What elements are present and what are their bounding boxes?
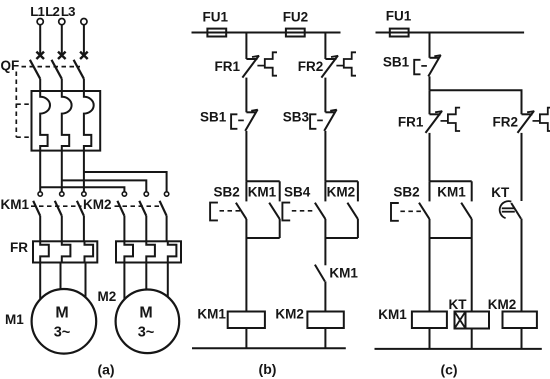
svg-text:FU2: FU2 xyxy=(283,10,309,25)
contactor coil KM2 xyxy=(307,312,343,329)
junction bar to FR2 branch xyxy=(430,90,522,114)
wire to KM1 coil xyxy=(245,238,247,312)
wire phase1 to KM1 pole1 xyxy=(39,151,41,192)
contactor KM2 main contact pole 2 xyxy=(144,192,148,196)
terminal L2 xyxy=(59,19,65,25)
SB2 dashed link xyxy=(220,210,242,212)
stop button SB3 (NC) xyxy=(325,111,335,113)
panel c top supply wire xyxy=(376,32,525,34)
svg-text:FU1: FU1 xyxy=(386,9,412,24)
fuse FU1 (c) xyxy=(390,29,409,37)
svg-text:SB2: SB2 xyxy=(214,185,240,200)
svg-text:KM2: KM2 xyxy=(488,297,517,312)
wire KM1 coil to bus (c) xyxy=(429,328,431,349)
wire phase3 to KM1 pole3 xyxy=(83,151,85,192)
svg-text:KM2: KM2 xyxy=(275,306,304,321)
time relay contact KT (NO delayed close) xyxy=(511,203,521,219)
thermal contact FR1 (c, NC) xyxy=(430,113,441,115)
contactor KM1 main contact pole 3 xyxy=(82,192,86,196)
svg-text:FR2: FR2 xyxy=(298,59,324,74)
thermal relay FR box left xyxy=(33,241,97,262)
wire FR to motor M2 phase2 xyxy=(145,263,147,293)
svg-text:M1: M1 xyxy=(5,312,24,327)
wire KT coil to bus (c) xyxy=(471,329,473,349)
svg-text:SB3: SB3 xyxy=(283,110,310,125)
terminal L3 xyxy=(81,19,87,25)
svg-text:KT: KT xyxy=(491,185,510,200)
fuse FU1 xyxy=(207,29,226,37)
breaker QF pole 3 (wire, X contact, blade) xyxy=(83,25,85,54)
SB4 dashed link xyxy=(292,210,315,212)
contactor KM1 main contact pole 2 xyxy=(60,192,64,196)
svg-text:(a): (a) xyxy=(97,362,114,378)
parallel top bar SB2/KM1 (c) xyxy=(430,180,472,182)
KM1 aux contact (NO self-hold) xyxy=(279,181,281,201)
svg-text:QF: QF xyxy=(1,58,20,73)
svg-text:SB1: SB1 xyxy=(383,55,410,70)
svg-text:3~: 3~ xyxy=(138,325,155,341)
wire bus to SB1 (c) xyxy=(429,33,431,58)
KM1 aux contact (c, NO self-hold) xyxy=(471,181,473,201)
FR heater element 2 xyxy=(62,241,71,262)
thermal contact FR2 (c, NC) xyxy=(522,113,533,115)
svg-text:KM2: KM2 xyxy=(327,185,356,200)
wire FR2 to KT contact xyxy=(521,133,523,201)
FR heater element 3 xyxy=(85,241,94,262)
KM1-KM2 coupling dashed line xyxy=(31,205,82,207)
svg-text:KM1: KM1 xyxy=(378,307,407,322)
wire to KT coil xyxy=(471,238,473,312)
fuse FU2 xyxy=(286,29,305,37)
interlock contact KM1 on branch 2 xyxy=(315,265,325,282)
svg-text:KM1: KM1 xyxy=(197,306,226,321)
QF release element pole 2 xyxy=(62,91,72,151)
contactor coil KM1 xyxy=(228,312,265,329)
start button SB4 (NO) xyxy=(324,181,326,201)
svg-text:FR1: FR1 xyxy=(215,59,241,74)
wire interlock to KM2 coil xyxy=(324,281,326,311)
wire FR to motor M1 phase2 xyxy=(60,263,62,293)
contactor coil KM2 (c) xyxy=(503,312,537,329)
SB4 button cap xyxy=(282,203,290,221)
thermal contact FR2 (NC) xyxy=(325,58,336,60)
breaker QF pole 1 (wire, X contact, blade) xyxy=(39,25,41,54)
parallel bottom bar (c) xyxy=(430,237,472,239)
QF coupling dashed line xyxy=(22,66,81,68)
wire KM2 coil to bus xyxy=(324,328,326,348)
wire phase3 branch to KM2 pole3 xyxy=(84,172,167,192)
contactor KM1 main contact pole 1 xyxy=(38,192,42,196)
svg-text:SB1: SB1 xyxy=(200,110,227,125)
FR heater element 4 xyxy=(124,241,133,262)
parallel bottom bar SB2/KM1 xyxy=(246,237,279,239)
svg-text:KM1: KM1 xyxy=(329,266,358,281)
wire FR to motor M2 phase1 xyxy=(123,263,125,303)
svg-text:(c): (c) xyxy=(440,362,457,378)
svg-text:L3: L3 xyxy=(61,4,75,19)
QF release element pole 3 xyxy=(84,91,94,151)
contactor KM2 main contact pole 1 xyxy=(122,192,126,196)
start button SB2 (c, NO) xyxy=(429,181,431,201)
stop button SB1 (NC) xyxy=(246,111,256,113)
stop button SB1 (c, NC) xyxy=(430,57,440,59)
SB2 dashed link (c) xyxy=(400,210,423,212)
wire FR1 to SB1 xyxy=(245,78,247,113)
svg-text:KM2: KM2 xyxy=(83,197,112,212)
svg-text:M2: M2 xyxy=(98,289,117,304)
wire KM1 coil to bus xyxy=(245,328,247,348)
wire SB1 to SB2 xyxy=(245,131,247,181)
wire phase2 to KM1 pole2 xyxy=(61,151,63,192)
wire FR to motor M2 phase3 xyxy=(167,263,169,301)
panel c bottom supply wire xyxy=(375,348,542,350)
wire KM2 coil to bus (c) xyxy=(521,328,523,349)
wire FR1 to SB2 (c) xyxy=(429,133,431,181)
svg-text:M: M xyxy=(139,305,152,322)
wire phase1 branch to KM2 pole1 xyxy=(40,187,124,191)
QF breaker box xyxy=(32,91,101,151)
wire FR2 to SB3 xyxy=(324,78,326,113)
svg-text:FR2: FR2 xyxy=(493,114,519,129)
svg-text:L1: L1 xyxy=(30,4,44,19)
start button SB2 (NO) xyxy=(245,181,247,201)
svg-text:KT: KT xyxy=(449,297,468,312)
svg-text:3~: 3~ xyxy=(54,325,71,341)
SB2 button cap xyxy=(210,203,218,221)
panel b top supply wire xyxy=(192,32,341,34)
wire bus to FR2 xyxy=(324,33,326,60)
svg-text:KM1: KM1 xyxy=(248,185,277,200)
QF release element pole 1 xyxy=(40,91,50,151)
FR heater element 1 xyxy=(40,241,49,262)
svg-text:SB2: SB2 xyxy=(393,185,419,200)
breaker QF pole 2 (wire, X contact, blade) xyxy=(61,25,63,54)
SB2 button cap (c) xyxy=(391,203,399,221)
svg-text:L2: L2 xyxy=(45,4,59,19)
terminal L1 xyxy=(37,19,43,25)
contactor KM2 main contact pole 3 xyxy=(164,192,168,196)
motor M1 xyxy=(32,289,97,354)
parallel top bar SB4/KM2 xyxy=(325,180,358,182)
panel b bottom supply wire xyxy=(192,347,346,349)
FR heater element 5 xyxy=(146,241,155,262)
wire phase2 branch to KM2 pole2 xyxy=(62,180,147,191)
svg-text:KM1: KM1 xyxy=(1,197,30,212)
parallel bottom bar SB4/KM2 xyxy=(325,237,358,239)
svg-text:FR1: FR1 xyxy=(398,114,424,129)
parallel top bar SB2/KM1 xyxy=(246,180,279,182)
thermal relay FR box right xyxy=(116,241,181,262)
svg-text:FR: FR xyxy=(10,240,28,255)
svg-text:M: M xyxy=(55,305,68,322)
time relay coil KT xyxy=(455,312,490,329)
wire to KM1 interlock xyxy=(324,238,326,265)
FR heater element 6 xyxy=(168,241,177,262)
wire FR to motor M1 phase1 xyxy=(39,263,41,303)
svg-text:(b): (b) xyxy=(259,361,277,377)
wire SB1 to junction xyxy=(429,76,431,90)
QF dashed bracket xyxy=(15,72,17,138)
svg-text:SB4: SB4 xyxy=(284,185,311,200)
wire to KM1 coil (c) xyxy=(429,238,431,312)
wire SB3 to SB4 xyxy=(324,131,326,181)
contactor coil KM1 (c) xyxy=(412,312,447,329)
thermal contact FR1 (NC) xyxy=(246,58,257,60)
KM2 aux contact (NO self-hold) xyxy=(357,181,359,201)
wire KT contact to KM2 coil xyxy=(521,219,523,312)
svg-text:KM1: KM1 xyxy=(437,185,466,200)
wire FR to motor M1 phase3 xyxy=(85,263,87,301)
wire junction to FR1 (c) xyxy=(429,90,431,114)
svg-text:FU1: FU1 xyxy=(203,10,229,25)
wire bus to FR1 xyxy=(245,33,247,60)
motor M2 xyxy=(116,290,180,354)
